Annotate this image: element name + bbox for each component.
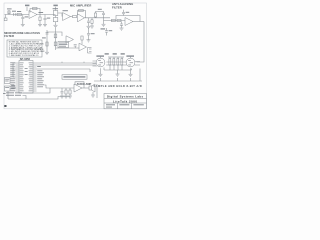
- IC U7 SP-0256 body: [19, 61, 33, 94]
- capacitor C3: [44, 15, 51, 25]
- resistor R11: [54, 42, 57, 46]
- wire stage2: [71, 16, 73, 18]
- resistor R18: [68, 88, 72, 98]
- capacitor C5: [98, 9, 105, 18]
- resistor R4: [39, 15, 41, 25]
- wire down right side: [137, 22, 145, 63]
- op-amp U5: [66, 36, 74, 43]
- op-amp U4: [125, 18, 133, 26]
- op-amp U9 ADC driver: [126, 55, 140, 67]
- border frame: [4, 3, 147, 109]
- resistor R15: [117, 57, 119, 70]
- resistor R14: [113, 57, 115, 70]
- resistor R9: [117, 19, 121, 21]
- wire left drop: [8, 91, 26, 99]
- label blob U1: [39, 12, 44, 13]
- label blob: [42, 37, 46, 38]
- resistor R13: [109, 57, 111, 70]
- ground: [53, 25, 57, 27]
- op-amp U8 sample hold: [93, 55, 105, 67]
- op-amp U6: [79, 43, 87, 51]
- page mark: [4, 105, 6, 107]
- svg-text:FILTER: FILTER: [4, 34, 14, 38]
- bus wire D0: [37, 62, 97, 64]
- op-amp U1: [29, 11, 37, 19]
- potentiometer RV1: [53, 8, 58, 17]
- resistor R12: [81, 36, 83, 44]
- IC pins right with labels: [29, 63, 45, 92]
- wires between ICs: [104, 62, 132, 70]
- wire amp input: [45, 85, 75, 88]
- notes box: [7, 40, 42, 57]
- node text box: [58, 42, 69, 48]
- wire op-amp out: [37, 14, 56, 16]
- wire filter out: [133, 21, 144, 23]
- wire mid vertical A: [46, 30, 48, 52]
- IC part number inside: [25, 67, 28, 70]
- capacitor C4: [87, 18, 90, 26]
- svg-text:Digital Systems Labs: Digital Systems Labs: [107, 95, 144, 99]
- ground: [38, 25, 42, 27]
- wire input: [5, 14, 30, 16]
- capacitor C1: [12, 11, 16, 16]
- capacitor C12: [105, 28, 112, 36]
- capacitor C13: [60, 88, 64, 98]
- capacitor C10: [74, 45, 77, 48]
- microphone MK1: [4, 15, 7, 21]
- speaker LS1: [89, 84, 95, 92]
- +5 label: [101, 28, 106, 29]
- wire mid lower: [56, 47, 80, 49]
- wire amp out: [82, 87, 89, 89]
- title block: [104, 94, 147, 109]
- resistor R17: [64, 88, 68, 98]
- ground U9: [129, 68, 133, 76]
- ground U8: [99, 68, 103, 76]
- bottom rail: [94, 69, 142, 82]
- ground speaker: [91, 92, 95, 97]
- capacitor C11: [87, 28, 95, 40]
- crystal oscillator X1: [5, 78, 11, 84]
- VCC rail 2: [53, 5, 57, 11]
- wire to U2: [58, 13, 62, 17]
- +5V rail: [108, 56, 124, 58]
- feedback rail: [116, 16, 140, 22]
- capacitor C2: [21, 15, 24, 25]
- resistor R8: [111, 19, 115, 21]
- svg-text:7. SEE SHEET 2 FOR DIGITAL I/O: 7. SEE SHEET 2 FOR DIGITAL I/O: [9, 54, 39, 57]
- capacitor C9: [54, 34, 57, 38]
- ground: [87, 26, 91, 28]
- ground: [87, 40, 91, 42]
- capacitor C6 top: [122, 10, 129, 16]
- bus wire D2: [37, 68, 91, 70]
- ground: [43, 25, 47, 27]
- svg-text:FILTER: FILTER: [112, 5, 122, 9]
- cell labels: [106, 104, 144, 107]
- svg-text:SAMPLE AND HOLD 8-BIT A/D: SAMPLE AND HOLD 8-BIT A/D: [94, 84, 143, 88]
- left rail: [13, 63, 16, 77]
- ground: [21, 25, 25, 27]
- wire filter input: [104, 18, 126, 21]
- feedback resistor R19: [78, 9, 86, 17]
- capacitor C7: [120, 22, 123, 28]
- resistor R1: [7, 8, 12, 14]
- resistor R6: [73, 15, 77, 17]
- resistor R16: [121, 57, 123, 70]
- capacitor C8: [46, 33, 49, 34]
- wire h mid: [47, 32, 62, 36]
- resistor R7: [94, 12, 103, 18]
- op-amp U2: [63, 10, 71, 20]
- ground C5: [102, 21, 106, 27]
- notes text: [9, 41, 45, 57]
- bottom-left signal labels: [6, 92, 22, 95]
- resistor R2: [17, 11, 21, 16]
- wire stage3: [85, 17, 111, 19]
- svg-text:SP-0256: SP-0256: [20, 57, 31, 61]
- junction tick: [62, 62, 90, 72]
- resistor R10: [46, 42, 48, 46]
- low pass filter label box: [62, 75, 87, 79]
- wire sig2: [23, 96, 71, 100]
- wire mid vertical B: [55, 28, 57, 50]
- resistor R20: [90, 18, 94, 28]
- op-amp U3: [78, 14, 85, 22]
- feedback loop: [75, 82, 84, 88]
- wire x97: [96, 84, 98, 98]
- ground: [120, 28, 124, 30]
- svg-text:LiteTalk 2000: LiteTalk 2000: [113, 99, 138, 103]
- IC pins left with labels: [10, 62, 23, 91]
- op-amp U10: [74, 84, 82, 92]
- ground: [45, 52, 49, 54]
- feedback resistor R3: [30, 7, 40, 14]
- bus wire D1: [37, 64, 97, 66]
- VCC rail: [25, 5, 29, 11]
- resistor R5: [53, 18, 58, 26]
- +5V labels: [105, 53, 125, 54]
- wire sig1: [23, 88, 51, 93]
- svg-text:MIC AMPLIFIER: MIC AMPLIFIER: [70, 4, 91, 8]
- connector J1: [88, 48, 92, 54]
- left misc labels: [3, 85, 16, 94]
- ground R15: [116, 70, 120, 76]
- capacitor C14 left: [5, 86, 11, 91]
